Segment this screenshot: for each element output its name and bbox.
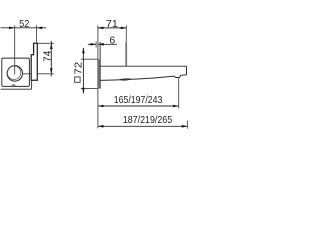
74 top arrow (up) [50,43,53,49]
arrowheads [9,27,187,128]
sq72 extension top [81,58,98,60]
74 bottom arrow (down) [50,68,53,74]
spout bottom edge with aerator notch [100,75,186,81]
handle knob outer circle [7,66,22,81]
165 left arrow [98,105,104,108]
52 left arrow (outside, pointing right) [9,27,15,30]
187 right arrow [182,125,188,128]
dim 52 line [1,27,47,29]
sq72 bottom arrow (down) [82,88,85,94]
long extension line wall/plate back [97,25,99,128]
svg-text:187/219/265: 187/219/265 [123,115,172,126]
lens bulge under spout [120,79,131,81]
dim 52 right extension [36,25,38,43]
svg-text:52: 52 [19,19,29,30]
joystick pin [125,42,127,66]
concealed body bottom edge [1,88,32,90]
dim1 right extension (aerator) [178,78,180,108]
dim 71 right extension [125,25,127,42]
6 left arrow (outside, pointing right) [91,43,97,46]
spout tip edge [186,66,188,75]
187 left arrow [98,125,104,128]
6 right arrow (outside, pointing left) [98,43,104,46]
spout top edge [100,65,187,67]
dim 74 top extension [37,42,54,44]
sq72 dim line [82,48,84,94]
svg-text:72: 72 [73,61,84,74]
sq72 extension bottom [81,88,98,90]
71 left arrow (inside, pointing left) [98,27,104,30]
escutcheon plate front view [2,58,30,86]
dim1 165 line [98,105,179,107]
sq72 top arrow (up) [82,48,85,54]
svg-text:165/197/243: 165/197/243 [114,95,163,106]
dim 74 bottom extension [37,73,53,75]
handle side tab (stepped rectangle) [31,43,37,80]
52 right arrow (outside, pointing left) [37,27,43,30]
sq72 square symbol [75,77,80,82]
dim2 187 line [98,125,187,127]
plate front edge line [99,42,101,89]
vertical centerline through knob [14,25,16,74]
71 right arrow (inside, pointing right) [121,27,127,30]
svg-text:6: 6 [109,35,115,46]
horizontal centerline knob to tab [23,73,32,75]
svg-text:74: 74 [43,50,54,62]
dim 6 line left part [88,43,96,45]
dim 6 line right part [98,43,117,45]
wall stub line (6 dim left ref) [95,42,97,48]
logo KEUCO [12,85,16,86]
165 right arrow [173,105,179,108]
dim 71 line [98,27,126,29]
dim 74 line [50,41,52,76]
plate side fill [98,59,100,88]
svg-text:71: 71 [106,19,118,30]
handle knob offset rim circle [7,66,21,80]
dim2 right extension [186,121,188,129]
concealed body right edge stub [31,81,33,90]
dimension texts [19,19,172,126]
